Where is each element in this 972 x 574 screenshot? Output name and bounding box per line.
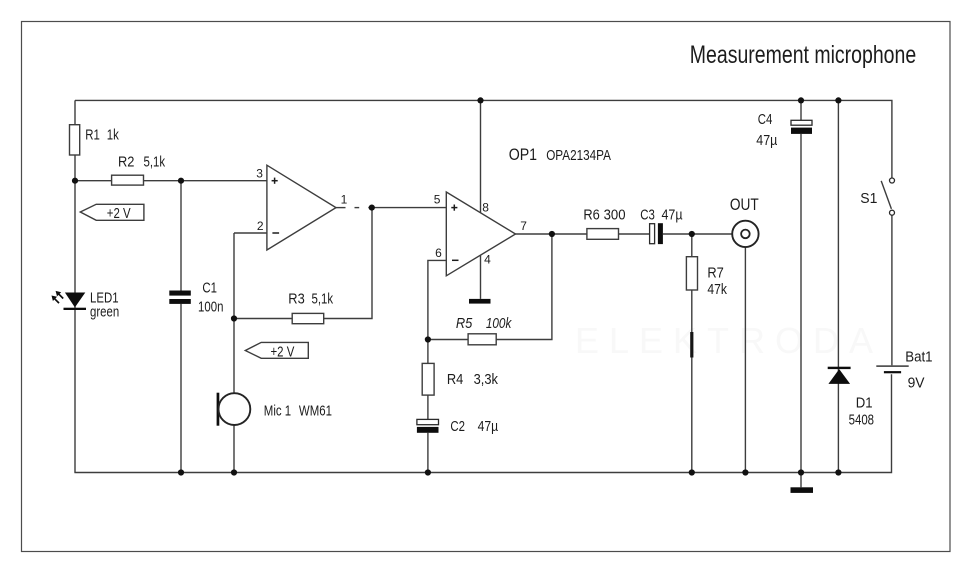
svg-text:2: 2 [257, 219, 264, 233]
svg-text:+2 V: +2 V [107, 205, 131, 222]
svg-text:ELEKTRODA: ELEKTRODA [575, 320, 883, 361]
svg-text:Mic 1: Mic 1 [264, 402, 291, 419]
svg-text:R5: R5 [456, 315, 473, 331]
svg-text:1k: 1k [107, 126, 120, 143]
svg-text:47µ: 47µ [478, 418, 499, 434]
svg-text:R6: R6 [583, 207, 599, 223]
svg-text:+2 V: +2 V [271, 343, 295, 360]
svg-text:green: green [90, 303, 119, 320]
svg-text:8: 8 [482, 200, 489, 214]
svg-text:S1: S1 [860, 190, 877, 206]
svg-text:R3: R3 [288, 291, 304, 307]
svg-text:R1: R1 [85, 126, 100, 143]
svg-text:D1: D1 [856, 395, 873, 411]
svg-text:5: 5 [434, 192, 441, 206]
svg-text:R2: R2 [118, 154, 134, 170]
svg-text:C3: C3 [640, 206, 655, 223]
svg-text:C2: C2 [450, 418, 465, 435]
svg-text:OUT: OUT [730, 196, 759, 214]
svg-text:1: 1 [341, 193, 348, 207]
svg-text:R4: R4 [447, 371, 464, 387]
svg-text:100n: 100n [198, 298, 223, 315]
svg-text:6: 6 [435, 246, 442, 260]
svg-text:5,1k: 5,1k [144, 153, 166, 170]
svg-text:5408: 5408 [849, 411, 874, 428]
svg-text:47µ: 47µ [756, 132, 777, 148]
svg-text:4: 4 [484, 252, 491, 266]
svg-text:3,3k: 3,3k [474, 371, 499, 387]
svg-text:5,1k: 5,1k [312, 290, 334, 307]
svg-text:Measurement microphone: Measurement microphone [690, 41, 916, 69]
svg-text:Bat1: Bat1 [905, 349, 932, 365]
svg-text:WM61: WM61 [299, 402, 332, 419]
svg-text:7: 7 [520, 219, 527, 233]
svg-text:3: 3 [256, 167, 263, 181]
svg-text:OP1: OP1 [509, 146, 537, 164]
svg-text:C1: C1 [202, 279, 217, 296]
svg-text:9V: 9V [908, 374, 926, 390]
svg-text:C4: C4 [758, 111, 773, 128]
svg-text:R7: R7 [707, 265, 723, 281]
svg-text:47µ: 47µ [662, 207, 683, 223]
svg-text:47k: 47k [707, 281, 727, 297]
svg-text:OPA2134PA: OPA2134PA [546, 147, 611, 163]
svg-text:100k: 100k [486, 315, 513, 331]
svg-text:300: 300 [604, 207, 626, 223]
